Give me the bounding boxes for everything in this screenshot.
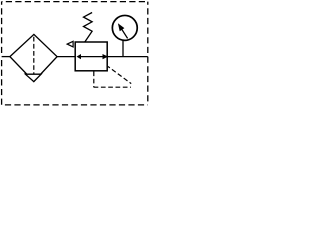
regulator R1 body — [75, 42, 107, 71]
enclosure dashed border left lower — [1, 60, 3, 105]
spring — [84, 13, 93, 43]
wire filter to regulator — [57, 56, 75, 58]
pilot dashed horizontal — [94, 86, 131, 88]
gauge G1 — [112, 15, 137, 40]
pilot dashed diagonal — [108, 67, 131, 84]
drain triangle — [25, 74, 41, 81]
regulator arrowhead left — [77, 54, 82, 59]
regulator arrowhead right — [103, 54, 109, 59]
gauge stem — [122, 40, 124, 56]
enclosure dashed border right lower — [147, 57, 149, 105]
enclosure dashed border right — [147, 2, 149, 54]
enclosure dashed border top — [2, 1, 148, 3]
enclosure dashed border left — [1, 2, 3, 54]
wire inlet — [2, 56, 10, 58]
gauge needle — [122, 29, 128, 39]
gauge needle arrowhead — [118, 23, 125, 31]
enclosure dashed border bottom — [2, 104, 148, 106]
filter F1 diamond — [10, 34, 57, 81]
pilot dashed vertical — [93, 71, 95, 87]
wire outlet — [107, 56, 148, 58]
regulator flow arrow line — [80, 56, 102, 58]
regulator vent triangle — [67, 41, 73, 47]
filter element dashed line — [33, 37, 35, 74]
